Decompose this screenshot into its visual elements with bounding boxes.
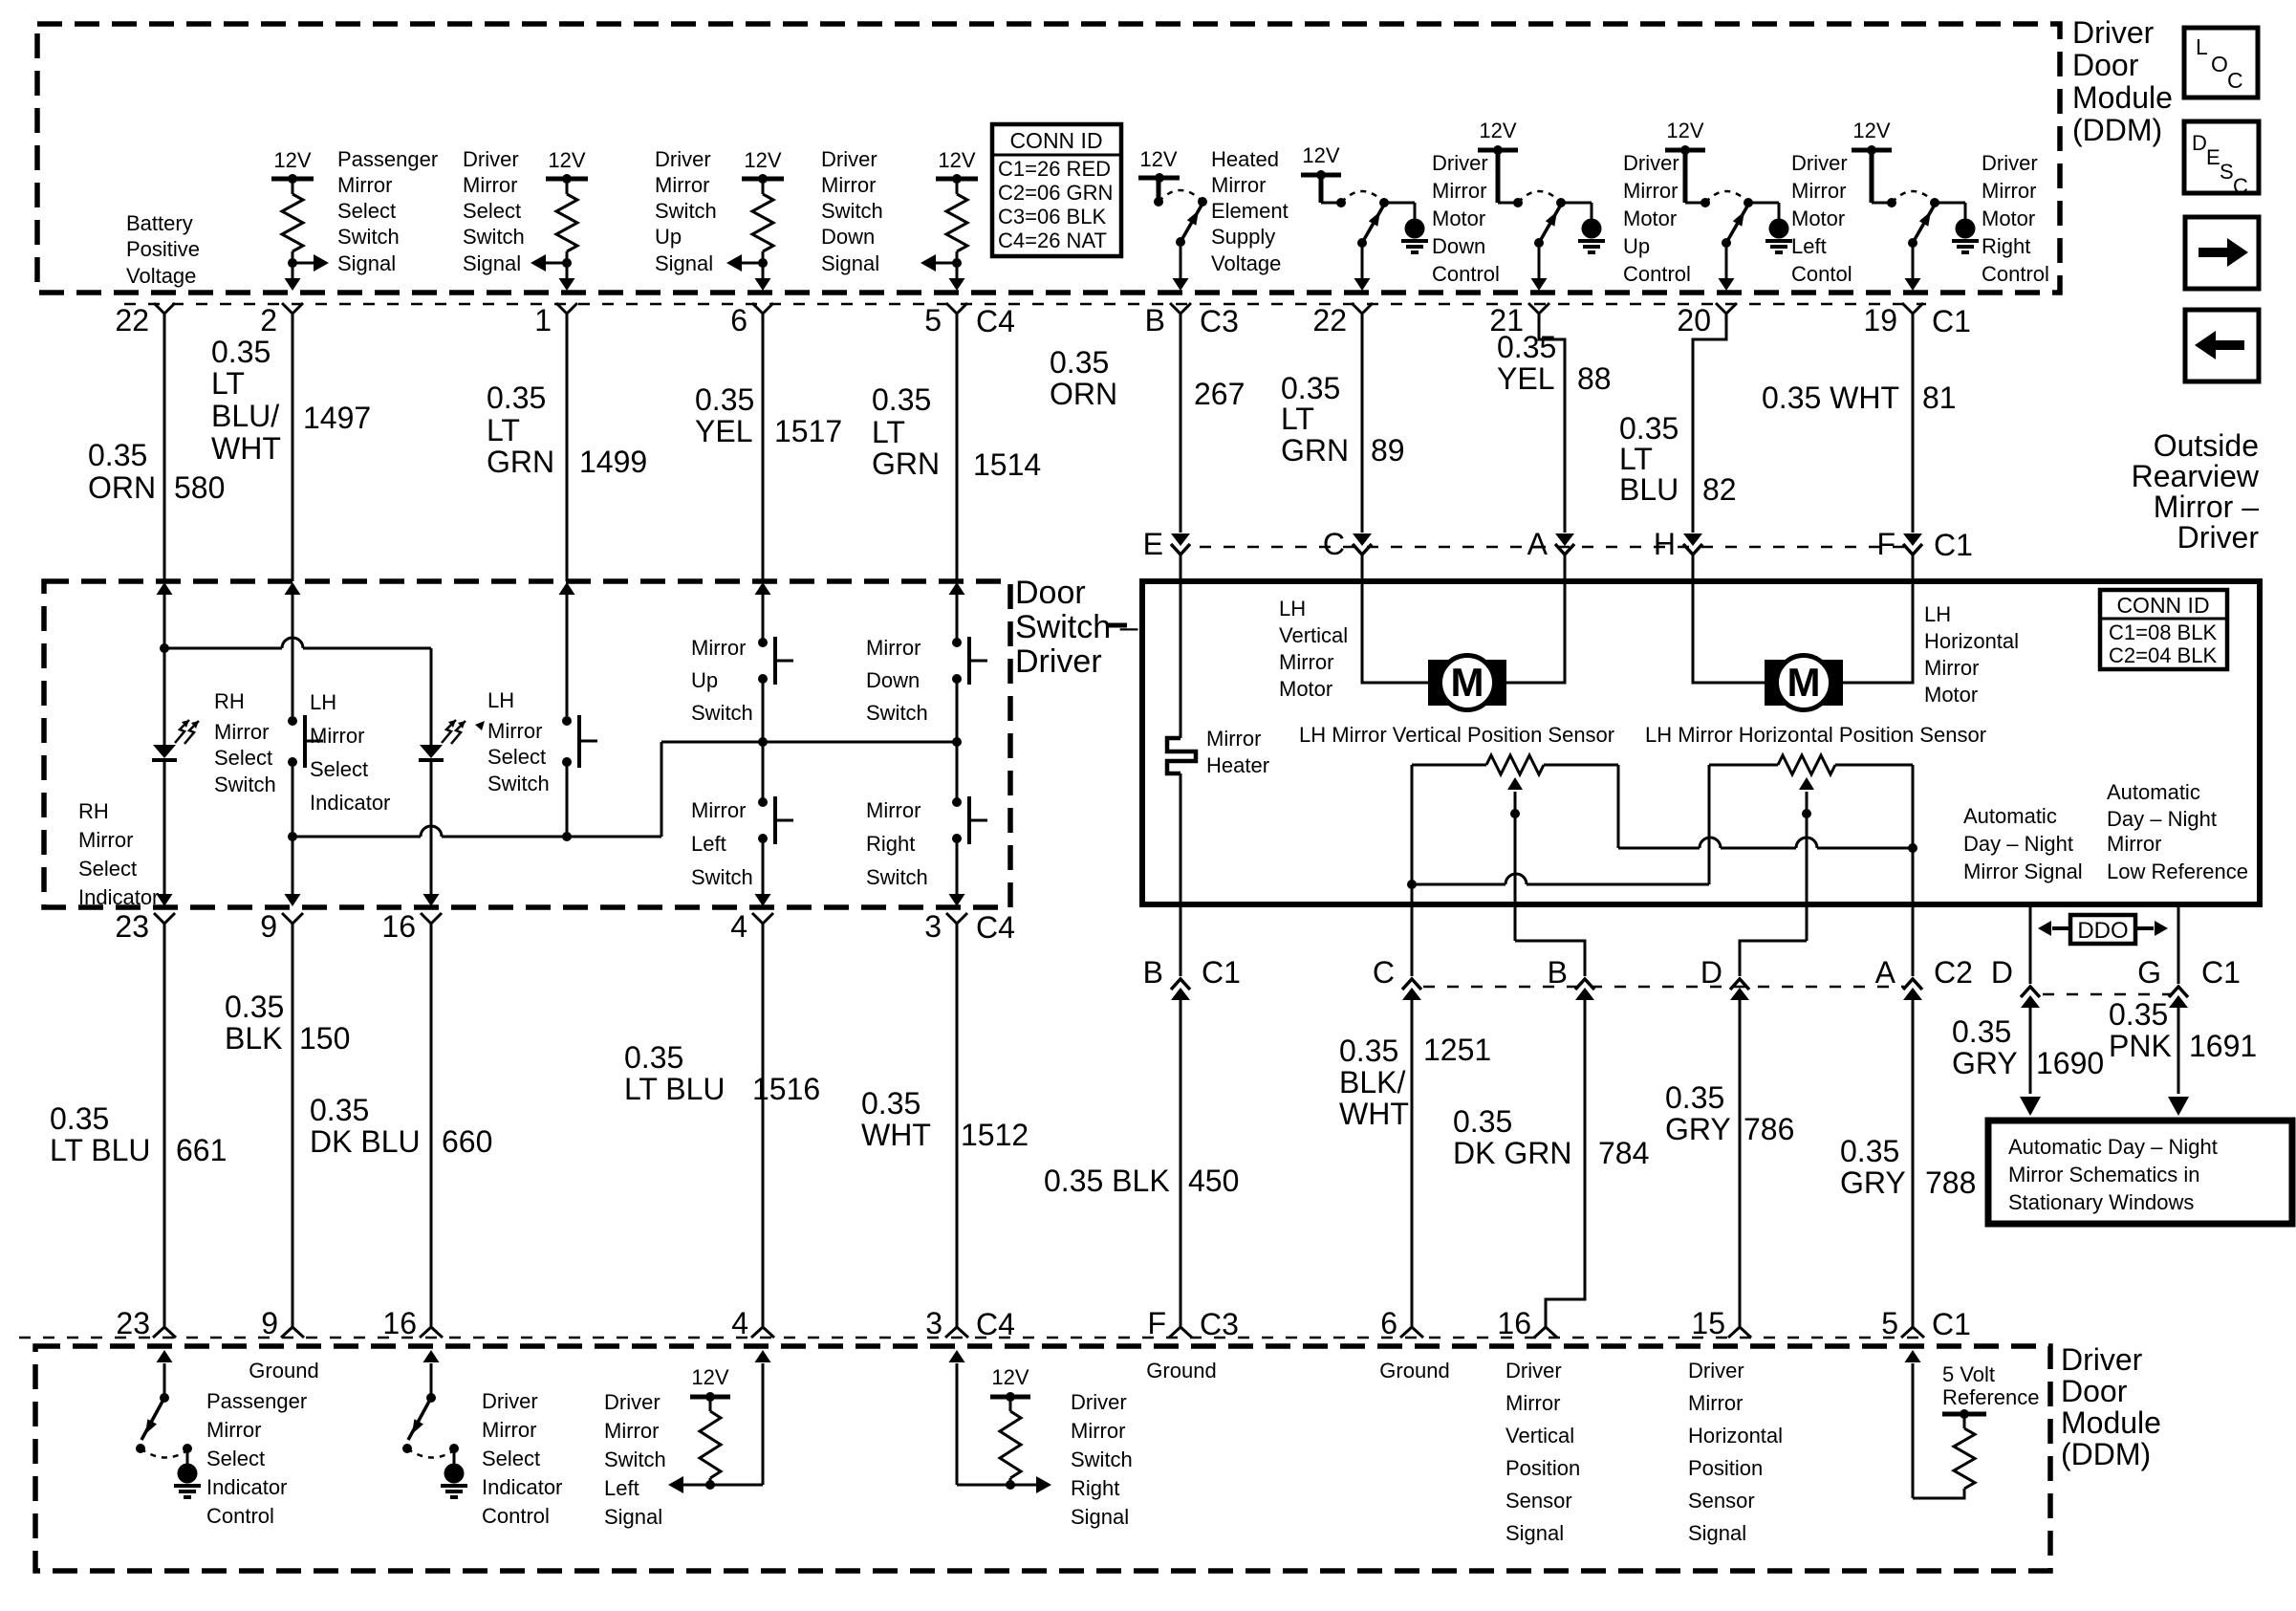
- wire 1251 BLK/WHT to bottom connector: [1411, 997, 1414, 1327]
- svg-text:12V: 12V: [691, 1365, 728, 1389]
- svg-text:C2: C2: [1934, 955, 1973, 990]
- svg-text:1499: 1499: [579, 445, 647, 479]
- svg-text:A: A: [1875, 955, 1896, 990]
- svg-text:Voltage: Voltage: [1211, 251, 1281, 275]
- svg-text:Driver: Driver: [1015, 643, 1102, 680]
- svg-text:L: L: [2196, 34, 2208, 59]
- resistor 5 volt reference: [1905, 1350, 2040, 1498]
- svg-text:1691: 1691: [2189, 1029, 2257, 1063]
- svg-text:D: D: [1700, 955, 1722, 990]
- svg-text:Mirror: Mirror: [482, 1418, 536, 1442]
- svg-text:23: 23: [115, 909, 149, 944]
- pin 16 bottom connector: [1497, 1306, 1557, 1340]
- svg-text:0.35: 0.35: [1952, 1014, 2011, 1049]
- svg-text:Passenger: Passenger: [337, 147, 438, 171]
- svg-text:Switch: Switch: [487, 772, 550, 795]
- svg-text:Select: Select: [206, 1447, 265, 1470]
- svg-text:660: 660: [442, 1124, 492, 1159]
- svg-text:Down: Down: [866, 668, 920, 692]
- wire mirror right switch to exit pin3: [956, 838, 959, 900]
- svg-text:Mirror: Mirror: [1623, 179, 1678, 203]
- wire line y875 with hop over LED column: [292, 742, 661, 837]
- svg-text:CONN ID: CONN ID: [1009, 128, 1102, 153]
- svg-text:H: H: [1654, 527, 1676, 561]
- svg-text:Driver: Driver: [2177, 520, 2260, 555]
- resistor driver mirror switch down signal 12V pull-up: [921, 148, 978, 291]
- svg-text:E: E: [1143, 527, 1163, 561]
- svg-text:Driver: Driver: [1623, 151, 1679, 175]
- connector line bottom row: [19, 1337, 1923, 1339]
- svg-text:23: 23: [116, 1306, 150, 1340]
- connector pin A row2: [1527, 527, 1574, 561]
- svg-text:Select: Select: [482, 1447, 540, 1470]
- wire C BLK/WHT 1251 below mirror box: [1411, 884, 1414, 976]
- svg-text:Sensor: Sensor: [1688, 1489, 1755, 1513]
- wiper LH mirror vertical position sensor: [1507, 777, 1523, 941]
- svg-text:Switch: Switch: [821, 199, 883, 223]
- pin 15 bottom connector: [1691, 1306, 1751, 1340]
- svg-text:Driver: Driver: [1791, 151, 1848, 175]
- svg-text:C3=06 BLK: C3=06 BLK: [998, 205, 1106, 229]
- svg-text:BLU: BLU: [1619, 472, 1679, 507]
- svg-text:Ground: Ground: [1379, 1359, 1449, 1382]
- wire 661 LT BLU: [163, 924, 166, 1327]
- svg-text:1: 1: [534, 303, 552, 337]
- svg-text:Signal: Signal: [1505, 1521, 1564, 1545]
- svg-text:0.35: 0.35: [1281, 371, 1340, 405]
- svg-text:Signal: Signal: [337, 251, 396, 275]
- svg-text:1690: 1690: [2036, 1046, 2104, 1080]
- wire C to LH vertical mirror motor: [1362, 555, 1428, 683]
- svg-text:Up: Up: [1623, 234, 1650, 258]
- switch passenger mirror select indicator control: [136, 1350, 201, 1497]
- wire heater to bottom of mirror box: [1180, 773, 1182, 976]
- wire A GRY 788 below mirror box: [1912, 848, 1915, 976]
- svg-text:4: 4: [731, 1306, 748, 1340]
- wire pin6 column segments: [762, 595, 765, 642]
- svg-text:Driver: Driver: [655, 147, 711, 171]
- LED LH mirror select indicator: [419, 720, 485, 760]
- svg-text:G: G: [2137, 955, 2161, 990]
- svg-text:0.35: 0.35: [1840, 1134, 1899, 1168]
- svg-text:150: 150: [299, 1021, 350, 1056]
- wire LED RH column down: [163, 760, 166, 900]
- svg-text:Driver: Driver: [482, 1389, 538, 1413]
- svg-text:Mirror: Mirror: [78, 828, 133, 852]
- svg-text:Sensor: Sensor: [1505, 1489, 1572, 1513]
- svg-text:0.35: 0.35: [695, 382, 754, 417]
- svg-text:786: 786: [1744, 1112, 1794, 1146]
- svg-text:0.35: 0.35: [2109, 997, 2168, 1032]
- wire H to LH horizontal mirror motor: [1693, 555, 1765, 683]
- svg-text:Signal: Signal: [463, 251, 521, 275]
- svg-text:Automatic: Automatic: [1963, 804, 2057, 828]
- svg-text:6: 6: [730, 303, 747, 337]
- wire RH select switch to bus 875: [292, 762, 294, 900]
- svg-text:Position: Position: [1505, 1456, 1580, 1480]
- exit arrow pin23 door box: [157, 894, 173, 906]
- svg-text:Driver: Driver: [2061, 1342, 2143, 1377]
- pin F bottom connector: [1147, 1306, 1238, 1341]
- sensor LH mirror vertical position (potentiometer): [1407, 755, 1618, 889]
- wire E to mirror heater: [1180, 555, 1182, 738]
- svg-text:Driver: Driver: [1688, 1359, 1744, 1382]
- svg-text:Control: Control: [1623, 262, 1691, 286]
- entry arrow pin2 door box: [285, 582, 301, 595]
- resistor driver mirror switch right signal: [949, 1350, 1052, 1493]
- connector line C4/C3/C1 top row: [124, 303, 1926, 306]
- svg-text:Position: Position: [1688, 1456, 1763, 1480]
- svg-text:WHT: WHT: [211, 431, 281, 466]
- svg-text:Driver: Driver: [1432, 151, 1488, 175]
- pin 22 top connector: [115, 303, 175, 337]
- wire 88 YEL pin21 jog to connector A: [1539, 314, 1565, 533]
- pin 3 bottom connector: [925, 1306, 1015, 1341]
- wire D automatic day-night mirror signal: [2029, 904, 2032, 984]
- svg-text:Switch: Switch: [866, 865, 928, 889]
- connector pin G DDO row: [2137, 955, 2241, 1008]
- wire 660 DK BLU: [430, 924, 433, 1327]
- svg-text:12V: 12V: [273, 148, 311, 172]
- svg-text:LH Mirror Horizontal Position: LH Mirror Horizontal Position Sensor: [1645, 723, 1986, 747]
- svg-text:Switch: Switch: [604, 1448, 666, 1471]
- svg-text:ORN: ORN: [1050, 377, 1117, 411]
- svg-text:A: A: [1527, 527, 1549, 561]
- legend box right arrow: [2185, 217, 2259, 289]
- svg-text:Switch: Switch: [655, 199, 717, 223]
- exit arrow pin16 door box: [423, 894, 440, 906]
- svg-text:BLK: BLK: [225, 1021, 282, 1056]
- svg-text:Mirror: Mirror: [691, 636, 746, 660]
- svg-text:16: 16: [381, 909, 416, 944]
- svg-text:Motor: Motor: [1982, 207, 2035, 230]
- svg-text:Mirror: Mirror: [2107, 832, 2161, 856]
- svg-text:WHT: WHT: [861, 1118, 931, 1152]
- entry arrow pin1 door box: [559, 582, 575, 595]
- entry arrow pin5 door box: [949, 582, 965, 595]
- svg-text:0.35: 0.35: [225, 990, 284, 1024]
- svg-text:1514: 1514: [973, 447, 1041, 482]
- svg-text:Mirror: Mirror: [866, 636, 921, 660]
- switch LH mirror select: [562, 715, 597, 768]
- svg-text:4: 4: [730, 909, 747, 944]
- CONN ID table mirror: [2100, 590, 2227, 669]
- svg-text:C1: C1: [1934, 528, 1973, 562]
- pin 2 top connector: [260, 303, 303, 337]
- svg-text:Down: Down: [1432, 234, 1485, 258]
- svg-text:ORN: ORN: [88, 470, 156, 505]
- svg-text:12V: 12V: [744, 148, 781, 172]
- wire 267 ORN pinB to connector E: [1180, 314, 1182, 533]
- connector pin F row2: [1876, 527, 1972, 562]
- connector pin C row2: [1323, 527, 1372, 561]
- wire pin5 column segments: [956, 595, 959, 642]
- svg-text:Indicator: Indicator: [78, 885, 159, 909]
- svg-text:LT: LT: [1619, 442, 1653, 476]
- resistor driver mirror switch left signal: [668, 1350, 771, 1493]
- svg-text:9: 9: [260, 909, 277, 944]
- wire G low reference: [2177, 904, 2180, 984]
- wire mirror left switch to exit pin4: [762, 838, 765, 900]
- switch mirror right: [952, 796, 987, 844]
- svg-text:Positive: Positive: [126, 237, 200, 261]
- wire 1690 GRY to automatic day-night mirror schematics: [2029, 1005, 2032, 1094]
- switch driver mirror motor right control: [1852, 119, 1979, 291]
- svg-text:Signal: Signal: [1688, 1521, 1746, 1545]
- svg-text:5: 5: [1881, 1306, 1898, 1340]
- svg-text:C4: C4: [976, 910, 1015, 945]
- pin 22 top connector: [1312, 303, 1373, 337]
- svg-text:C1: C1: [1932, 304, 1971, 338]
- svg-text:89: 89: [1371, 433, 1405, 468]
- wire 1517 YEL pin6 to door box: [762, 314, 765, 581]
- svg-text:D: D: [2192, 131, 2207, 155]
- svg-text:Switch: Switch: [463, 225, 525, 249]
- exit arrow pin3 door box: [949, 894, 965, 906]
- entry arrow pin22 door box: [157, 582, 173, 595]
- svg-text:Module: Module: [2061, 1405, 2161, 1440]
- svg-text:O: O: [2211, 52, 2228, 76]
- svg-text:784: 784: [1598, 1136, 1649, 1170]
- svg-text:Horizontal: Horizontal: [1688, 1424, 1783, 1448]
- svg-text:DDO: DDO: [2077, 918, 2128, 944]
- svg-text:Motor: Motor: [1623, 207, 1677, 230]
- exit arrow pin4 door box: [755, 894, 771, 906]
- svg-text:Mirror: Mirror: [1924, 656, 1979, 680]
- svg-text:Driver: Driver: [2072, 15, 2155, 50]
- wire pin22 column inside door box: [163, 595, 166, 745]
- svg-text:88: 88: [1577, 361, 1612, 396]
- svg-text:Select: Select: [337, 199, 396, 223]
- svg-text:2: 2: [260, 303, 277, 337]
- pin 6 bottom connector: [1380, 1306, 1423, 1340]
- svg-text:Signal: Signal: [655, 251, 713, 275]
- svg-text:Mirror: Mirror: [1505, 1391, 1560, 1415]
- svg-text:LH: LH: [1924, 602, 1951, 626]
- pin 4 door box bottom connector: [730, 909, 773, 944]
- svg-text:D: D: [1991, 955, 2013, 990]
- svg-text:Horizontal: Horizontal: [1924, 629, 2019, 653]
- svg-text:Left: Left: [691, 832, 726, 856]
- svg-text:Mirror: Mirror: [604, 1419, 659, 1443]
- svg-text:12V: 12V: [1139, 147, 1177, 171]
- wire 580 ORN pin22 to door box: [163, 314, 166, 581]
- CONN ID table top: [992, 124, 1121, 256]
- svg-text:Driver: Driver: [821, 147, 877, 171]
- svg-text:Automatic Day – Night: Automatic Day – Night: [2008, 1135, 2218, 1159]
- component box: Outside Rearview Mirror - Driver: [1142, 581, 2260, 904]
- svg-text:GRN: GRN: [487, 445, 554, 479]
- svg-text:580: 580: [174, 470, 225, 505]
- svg-text:22: 22: [1312, 303, 1347, 337]
- wire 1512 WHT: [956, 924, 959, 1327]
- svg-text:Driver: Driver: [463, 147, 519, 171]
- svg-text:Driver: Driver: [1071, 1390, 1127, 1414]
- svg-text:Motor: Motor: [1279, 677, 1332, 701]
- wire 786 GRY to bottom pin 15: [1739, 997, 1742, 1327]
- svg-text:788: 788: [1925, 1165, 1976, 1200]
- svg-text:RH: RH: [214, 689, 245, 713]
- svg-text:LT: LT: [487, 413, 520, 447]
- svg-text:Switch: Switch: [214, 773, 276, 796]
- svg-text:B: B: [1548, 955, 1568, 990]
- svg-text:9: 9: [261, 1306, 278, 1340]
- pin 6 top connector: [730, 303, 773, 337]
- svg-text:Left: Left: [604, 1476, 639, 1500]
- switch driver mirror select indicator control: [402, 1350, 467, 1497]
- svg-text:82: 82: [1702, 472, 1737, 507]
- svg-text:PNK: PNK: [2109, 1029, 2172, 1063]
- legend box left arrow: [2185, 310, 2259, 381]
- exit arrow pin9 door box: [285, 894, 301, 906]
- svg-text:Switch: Switch: [691, 701, 753, 725]
- svg-text:GRY: GRY: [1665, 1112, 1731, 1146]
- svg-text:Automatic: Automatic: [2107, 780, 2200, 804]
- svg-text:(DDM): (DDM): [2061, 1437, 2151, 1471]
- svg-text:Indicator: Indicator: [310, 791, 390, 815]
- svg-text:Mirror: Mirror: [655, 173, 709, 197]
- wire 1514 LT GRN pin5 to door box: [956, 314, 959, 581]
- connector line C1/C2 row 3: [1423, 986, 1904, 989]
- svg-text:RH: RH: [78, 799, 109, 823]
- svg-text:0.35 BLK: 0.35 BLK: [1044, 1164, 1170, 1198]
- svg-text:Day – Night: Day – Night: [2107, 807, 2217, 831]
- svg-text:12V: 12V: [938, 148, 975, 172]
- svg-text:Mirror –: Mirror –: [2154, 490, 2259, 524]
- svg-text:LH: LH: [310, 690, 336, 714]
- svg-text:Indicator: Indicator: [206, 1475, 287, 1499]
- wire pin1 column to LH select switch: [566, 595, 569, 716]
- wiper LH mirror horizontal position sensor: [1799, 777, 1814, 941]
- svg-text:0.35: 0.35: [1497, 330, 1556, 364]
- module box: Driver Door Module (DDM) top: [37, 24, 2060, 293]
- svg-text:C2=04 BLK: C2=04 BLK: [2109, 643, 2217, 667]
- wire pin2 column to RH select switch: [292, 595, 294, 716]
- switch mirror left: [758, 796, 793, 844]
- motor M LH horizontal mirror: [1765, 656, 1843, 710]
- svg-text:LH: LH: [1279, 597, 1306, 620]
- wire sensor bus y887 VPS right end to A-wire: [1618, 838, 1913, 848]
- svg-text:Mirror: Mirror: [1688, 1391, 1743, 1415]
- svg-text:3: 3: [925, 1306, 942, 1340]
- svg-text:Door: Door: [2061, 1374, 2128, 1408]
- DDO reference box with arrows: [2038, 915, 2168, 944]
- svg-text:0.35: 0.35: [1339, 1034, 1398, 1068]
- svg-text:C: C: [1323, 527, 1345, 561]
- svg-text:LT BLU: LT BLU: [624, 1072, 726, 1106]
- pin 23 bottom connector: [116, 1306, 176, 1340]
- svg-text:1517: 1517: [774, 414, 842, 448]
- svg-text:267: 267: [1194, 377, 1245, 411]
- svg-text:Mirror Schematics in: Mirror Schematics in: [2008, 1163, 2199, 1186]
- switch mirror down: [952, 637, 987, 685]
- wire F to LH horizontal mirror motor: [1843, 555, 1913, 683]
- svg-text:LT: LT: [872, 415, 905, 449]
- svg-text:LT: LT: [1281, 402, 1314, 436]
- resistor driver mirror switch up signal 12V pull-up: [726, 148, 784, 291]
- svg-text:Select: Select: [78, 857, 137, 881]
- svg-text:C: C: [2227, 68, 2243, 93]
- connector line DDO row (D G C1): [2043, 993, 2172, 996]
- svg-text:Control: Control: [206, 1504, 274, 1528]
- svg-text:LH Mirror Vertical Position Se: LH Mirror Vertical Position Sensor: [1299, 723, 1614, 747]
- wire 82 LT BLU pin20 jog to connector H: [1693, 314, 1726, 533]
- svg-text:YEL: YEL: [1497, 361, 1554, 396]
- svg-text:Select: Select: [310, 757, 368, 781]
- svg-text:Left: Left: [1791, 234, 1827, 258]
- svg-text:16: 16: [1497, 1306, 1531, 1340]
- pin 16 bottom connector: [382, 1306, 443, 1340]
- svg-text:C3: C3: [1200, 1307, 1239, 1341]
- wire 150 BLK: [292, 924, 294, 1327]
- connector pin A row3: [1875, 955, 1973, 1000]
- svg-text:16: 16: [382, 1306, 417, 1340]
- svg-text:20: 20: [1677, 303, 1711, 337]
- svg-text:Stationary Windows: Stationary Windows: [2008, 1190, 2194, 1214]
- svg-text:Ground: Ground: [249, 1359, 318, 1382]
- svg-text:Mirror: Mirror: [463, 173, 517, 197]
- svg-text:1497: 1497: [303, 401, 371, 435]
- svg-text:0.35: 0.35: [861, 1086, 921, 1121]
- svg-text:Door: Door: [1015, 575, 1086, 611]
- wire crossbar y678 to LH indicator: [164, 638, 431, 745]
- svg-text:Heater: Heater: [1206, 753, 1269, 777]
- pin 4 bottom connector: [731, 1306, 774, 1340]
- svg-text:Mirror: Mirror: [206, 1418, 261, 1442]
- svg-text:0.35: 0.35: [50, 1101, 109, 1136]
- svg-text:Mirror Signal: Mirror Signal: [1963, 860, 2083, 883]
- svg-text:0.35: 0.35: [487, 381, 546, 415]
- svg-text:0.35: 0.35: [88, 438, 147, 472]
- svg-text:LH: LH: [487, 688, 514, 712]
- svg-text:C: C: [2233, 174, 2248, 198]
- svg-text:5 Volt: 5 Volt: [1942, 1362, 1995, 1386]
- svg-text:F: F: [1147, 1306, 1166, 1340]
- connector pin D DDO row: [1991, 955, 2040, 1008]
- svg-text:15: 15: [1691, 1306, 1725, 1340]
- svg-text:661: 661: [176, 1133, 227, 1167]
- pin 5 top connector: [924, 303, 1015, 338]
- svg-text:B: B: [1145, 303, 1165, 337]
- svg-text:12V: 12V: [1852, 119, 1890, 142]
- LED RH mirror select indicator: [152, 720, 199, 760]
- svg-text:Switch: Switch: [337, 225, 400, 249]
- sensor LH mirror horizontal position (potentiometer): [1709, 755, 1917, 853]
- svg-text:Day – Night: Day – Night: [1963, 832, 2073, 856]
- svg-text:Element: Element: [1211, 199, 1289, 223]
- module box: Driver Door Module (DDM) bottom: [35, 1346, 2050, 1571]
- pin 3 door box bottom connector: [924, 909, 1015, 945]
- svg-text:GRN: GRN: [872, 446, 940, 481]
- wire 81 WHT pin19 to connector F: [1912, 314, 1915, 533]
- svg-text:DK BLU: DK BLU: [310, 1124, 421, 1159]
- pin 1 top connector: [534, 303, 577, 337]
- svg-text:Up: Up: [655, 225, 682, 249]
- svg-text:Mirror: Mirror: [821, 173, 876, 197]
- connector pin C row3: [1373, 955, 1421, 1000]
- svg-text:C1=26 RED: C1=26 RED: [998, 157, 1111, 181]
- wire 1691 PNK to automatic day-night mirror schematics: [2177, 1005, 2180, 1094]
- svg-text:450: 450: [1188, 1164, 1239, 1198]
- svg-text:YEL: YEL: [695, 414, 752, 448]
- svg-text:M: M: [1787, 660, 1821, 705]
- svg-text:Motor: Motor: [1791, 207, 1845, 230]
- svg-text:Right: Right: [1071, 1476, 1119, 1500]
- svg-text:Mirror: Mirror: [310, 724, 364, 748]
- svg-text:Mirror: Mirror: [1432, 179, 1486, 203]
- svg-text:Motor: Motor: [1432, 207, 1485, 230]
- svg-text:BLU/: BLU/: [211, 399, 279, 433]
